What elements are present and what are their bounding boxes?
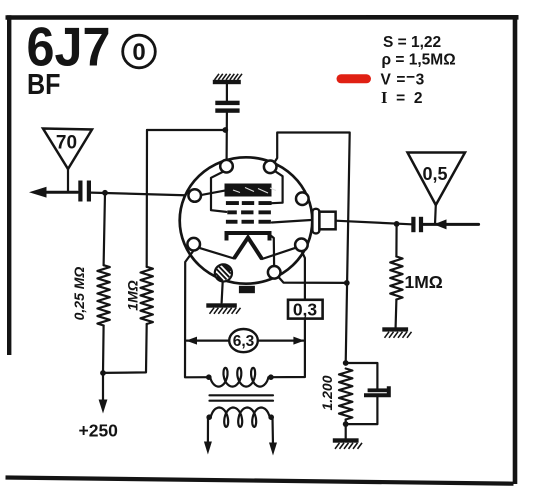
wire heater left internal lead [199, 248, 234, 259]
node cathode junction dot [344, 280, 350, 286]
border frame right [513, 15, 518, 484]
svg-text:+250: +250 [79, 421, 119, 441]
wire screen feed vertical [146, 130, 149, 267]
transformer core lines [210, 395, 274, 400]
wire screen grid internal lead [211, 172, 226, 212]
node bias top junction dot [343, 360, 349, 366]
svg-text:BF: BF [27, 69, 61, 101]
oval 6,3 heater voltage [229, 329, 258, 352]
triangle antenna 70 [43, 129, 92, 170]
svg-text:0: 0 [132, 39, 145, 66]
svg-text:S = 1,22: S = 1,22 [383, 34, 441, 51]
ground under tube [206, 303, 237, 307]
wire ground to capacitor [226, 84, 228, 101]
node screen junction dot [222, 127, 228, 133]
pin shell shield (hatched) [215, 264, 232, 282]
wire shield pin to ground [222, 281, 223, 302]
svg-text:ρ = 1,5MΩ: ρ = 1,5MΩ [382, 52, 456, 69]
node primary left dot [206, 374, 212, 380]
wire cathode to pin internal [270, 235, 274, 266]
wire heater right down [302, 251, 305, 301]
border frame top [6, 15, 519, 20]
wire node to resistor R1 [104, 193, 105, 265]
grid row 2 screen dashes [227, 210, 271, 214]
node grid junction dot [394, 221, 400, 227]
svg-text:6,3: 6,3 [233, 333, 255, 350]
resistor R1 0,25 Mohm [97, 265, 109, 325]
wire grid cap to coupling cap [336, 221, 412, 225]
wire R3 to ground [395, 300, 398, 328]
cathode bar [227, 233, 270, 241]
grid cap collar [312, 209, 319, 234]
svg-text:I = 2: I = 2 [381, 88, 425, 107]
border frame bottom [6, 478, 514, 484]
wire suppressor to cathode rail [274, 133, 349, 364]
svg-text:70: 70 [56, 133, 77, 154]
node secondary right dot [268, 414, 274, 420]
wire triangle 0,5 stem [434, 205, 437, 224]
wire heater right internal lead [262, 248, 296, 259]
wire heater left down [185, 251, 209, 378]
border frame left [7, 15, 11, 355]
svg-text:V =−3: V =−3 [381, 69, 425, 89]
resistor R3 1 Mohm grid leak [390, 257, 402, 300]
arrow secondary right [269, 443, 277, 456]
red highlight mark [337, 74, 372, 83]
pin cathode (bottom-right) [268, 266, 281, 279]
capacitor C-screen plates [215, 101, 239, 105]
grid cap body [319, 212, 335, 230]
ground grid leak [382, 327, 408, 331]
capacitor C-bypass branch bottom [346, 397, 378, 424]
svg-text:0,25 MΩ: 0,25 MΩ [71, 267, 87, 321]
node secondary left dot [206, 414, 212, 420]
pin heater right [295, 239, 308, 252]
heater filament chevron [234, 238, 262, 260]
node primary right dot [268, 374, 274, 380]
node plate junction dot [102, 190, 108, 196]
wire triangle stem [67, 169, 69, 192]
wire grid node to R3 [395, 224, 397, 257]
wire plate lead internal [200, 191, 225, 196]
capacitor C-coupling left plates [78, 181, 82, 202]
wire R2 bottom to +250 node [103, 324, 147, 373]
arrow +250 down [99, 400, 108, 414]
wire arrow to capacitor [40, 191, 78, 194]
pin nc (right upper) [296, 192, 309, 205]
grid row 3 control dashes [226, 220, 271, 224]
arrow secondary left [204, 442, 212, 455]
wire cathode pin to rail [279, 277, 347, 283]
arrow output left [29, 187, 47, 198]
svg-text:1MΩ: 1MΩ [405, 272, 443, 292]
ground cathode bias [333, 438, 359, 442]
tube 6J7 envelope circle [180, 157, 313, 283]
node +250 junction dot [100, 370, 106, 376]
capacitor C-bypass branch top [346, 363, 378, 388]
node bias bottom junction dot [343, 421, 349, 427]
measure line 6,3 [187, 340, 304, 342]
wire secondary left lead [207, 418, 209, 446]
pin heater left [187, 238, 200, 251]
svg-text:1MΩ: 1MΩ [125, 280, 141, 310]
arrow input pointing left [434, 219, 447, 229]
wire suppressor internal lead [272, 171, 283, 204]
capacitor C-bypass plates [368, 388, 388, 392]
tube key tab [239, 286, 255, 293]
capacitor C-input plates [411, 217, 415, 232]
ground top (screen bypass) [215, 74, 243, 80]
box 0,3 heater current [288, 300, 323, 320]
wire capacitor to tube plate pin [91, 193, 189, 196]
triangle source 0,5 [408, 153, 466, 206]
wire screen node horizontal [147, 129, 225, 131]
wire input from right [423, 223, 479, 226]
pin screen (top-left) [220, 160, 233, 173]
resistor R2 1 Mohm screen [141, 267, 153, 324]
transformer secondary winding [211, 408, 270, 427]
resistor R4 1.200 cathode bias [339, 369, 352, 420]
wire R4 to ground [345, 420, 347, 439]
grid row 1 suppressor dashes [226, 201, 272, 205]
wire grid cap diagonal lead [272, 220, 313, 223]
wire R1 to +250 node [102, 326, 105, 405]
circled 0 marker [123, 35, 156, 68]
wire capacitor down to screen pin [226, 113, 228, 160]
pin plate (left) [188, 189, 201, 202]
svg-text:0,3: 0,3 [293, 300, 318, 320]
anode plate bar [225, 184, 277, 197]
svg-text:0,5: 0,5 [422, 164, 447, 184]
wire secondary right lead [271, 418, 274, 447]
transformer primary winding [210, 368, 268, 387]
pin suppressor (top-right) [264, 161, 277, 174]
svg-text:1.200: 1.200 [319, 375, 335, 410]
